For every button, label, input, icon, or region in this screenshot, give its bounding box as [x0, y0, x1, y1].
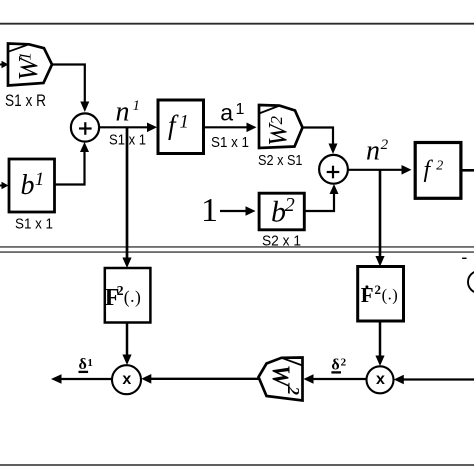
- sum junction 2: [319, 155, 348, 184]
- svg-text:x: x: [376, 371, 385, 388]
- svg-text:2: 2: [117, 284, 124, 299]
- svg-text:1: 1: [201, 192, 218, 229]
- svg-text:(.): (.): [382, 285, 398, 305]
- svg-text:2: 2: [381, 137, 389, 153]
- svg-text:x: x: [122, 371, 131, 388]
- cropped sum junction at right edge: [468, 271, 474, 293]
- wire W2 to sum2: [303, 128, 338, 155]
- output arrow delta1: [51, 374, 112, 383]
- wire W1 to sum1: [52, 65, 89, 113]
- input arrow to b1: [0, 182, 9, 189]
- bias block b2: [259, 193, 304, 230]
- svg-text:S1 x R: S1 x R: [5, 91, 46, 110]
- svg-text:S1 x 1: S1 x 1: [211, 134, 249, 151]
- wire b2 to sum2: [305, 184, 339, 211]
- bottom frame line: [0, 464, 474, 466]
- sum junction 1: [71, 113, 99, 141]
- derivative block F1 (left): [105, 268, 151, 323]
- mult junction 1: [112, 365, 141, 394]
- wire F2 down to mult2: [375, 321, 384, 366]
- svg-text:S1 x 1: S1 x 1: [15, 216, 53, 233]
- svg-text:1: 1: [87, 357, 93, 369]
- weight block W2: [259, 105, 303, 148]
- wire sum1 to f1 (n1): [99, 123, 157, 133]
- branch wire n1 down to F1 box: [122, 127, 131, 268]
- mult junction 2: [367, 366, 394, 393]
- svg-text:1: 1: [180, 112, 189, 132]
- svg-text:2: 2: [436, 159, 443, 174]
- svg-text:2: 2: [284, 386, 303, 396]
- wire f1 to W2 (a1): [204, 123, 257, 133]
- wire f2 to right edge: [461, 169, 474, 172]
- svg-text:S2 x S1: S2 x S1: [258, 152, 303, 169]
- wire b1 to sum1: [55, 142, 90, 185]
- bias block b1: [9, 159, 55, 212]
- weight block W2 transpose: [259, 358, 304, 401]
- svg-text:2: 2: [267, 116, 286, 125]
- node delta1: [79, 356, 93, 373]
- svg-text:b: b: [271, 196, 286, 229]
- wire right edge to mult2: [394, 375, 474, 385]
- wire mult2 to W2T: [304, 374, 367, 384]
- wire W2T to mult1: [141, 374, 258, 384]
- svg-text:1: 1: [133, 98, 140, 114]
- function block f2: [415, 143, 461, 199]
- arrow 1 to b2: [220, 206, 256, 216]
- svg-text:b: b: [21, 170, 35, 201]
- svg-text:(.): (.): [124, 286, 141, 307]
- svg-text:S2 x 1: S2 x 1: [262, 232, 301, 249]
- wire sum2 to f2 (n2): [348, 165, 412, 175]
- svg-text:δ: δ: [331, 357, 339, 374]
- svg-text:-: -: [462, 248, 468, 267]
- input arrow to W1: [0, 61, 9, 68]
- svg-text:W: W: [264, 122, 293, 146]
- svg-text:2: 2: [285, 194, 295, 216]
- svg-text:n: n: [116, 96, 130, 127]
- node delta2: [331, 357, 346, 374]
- wire F1 down to mult1: [122, 323, 131, 366]
- svg-text:δ: δ: [79, 356, 87, 373]
- top frame line: [0, 23, 474, 25]
- branch wire n2 down to F2 box: [375, 170, 384, 267]
- function block f1: [158, 100, 204, 154]
- svg-text:1: 1: [236, 101, 245, 118]
- svg-text:1: 1: [35, 169, 45, 190]
- derivative block F2 (right): [358, 267, 404, 322]
- svg-text:1: 1: [16, 52, 35, 61]
- weight block W1: [8, 44, 52, 86]
- svg-text:n: n: [366, 136, 380, 167]
- divider double line: [0, 247, 474, 252]
- svg-text:a: a: [220, 100, 233, 126]
- svg-text:2: 2: [341, 357, 347, 369]
- svg-text:2: 2: [375, 282, 382, 297]
- svg-text:W: W: [267, 365, 294, 389]
